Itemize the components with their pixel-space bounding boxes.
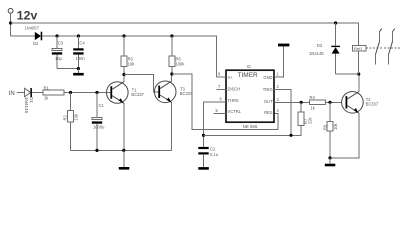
wire bottom ground rail (71, 149, 172, 151)
svg-text:100n: 100n (76, 56, 86, 61)
wire C3 to C4 bottom (57, 68, 78, 70)
node VCC junction (9, 21, 12, 24)
wire IN to D1 (17, 92, 25, 94)
wire T1 emitter (123, 103, 125, 150)
svg-text:D2: D2 (33, 41, 39, 46)
wire R6 node to 555 nets (172, 74, 278, 130)
node C4 ground junction (77, 67, 80, 70)
pin 2 TRIG (274, 90, 291, 136)
node C4 tap (77, 34, 80, 37)
svg-text:22k: 22k (308, 116, 313, 124)
relay contact 1 (376, 29, 382, 65)
node C1 tap (95, 91, 98, 94)
node ground junction (122, 149, 125, 152)
svg-text:THRS: THRS (228, 98, 239, 103)
svg-text:1N4148: 1N4148 (24, 97, 29, 114)
svg-text:TIMER: TIMER (238, 72, 259, 79)
wire trig rail (204, 126, 302, 136)
svg-text:BC337: BC337 (131, 92, 144, 97)
ground C2 (198, 167, 209, 170)
svg-text:10k: 10k (74, 113, 79, 121)
ground C3 C4 (73, 69, 84, 76)
relay contact 2 (389, 29, 395, 65)
pin 1 GND to ground (274, 46, 284, 77)
node R6 tap (170, 34, 173, 37)
node R5 bottom junction (328, 156, 331, 159)
capacitor C2 (198, 146, 218, 167)
wire T1 collector (123, 75, 125, 82)
svg-text:Rel1: Rel1 (354, 46, 363, 51)
node R3 tap (122, 34, 125, 37)
svg-text:R4: R4 (310, 95, 316, 100)
pin 5 VCTRL stub (214, 113, 227, 115)
IC 555 (226, 64, 274, 129)
transistor T3 (154, 81, 193, 103)
wire T2 collector (358, 74, 360, 92)
svg-text:1N4148: 1N4148 (309, 51, 324, 56)
wire supply rail to 555 V+ (42, 36, 216, 77)
wire R4 to T2 base (326, 101, 342, 103)
node D3 top (334, 21, 337, 24)
svg-text:IN: IN (9, 91, 15, 97)
wire R1 to T1 base (64, 92, 111, 94)
diode D2 (25, 26, 43, 46)
svg-text:BC337: BC337 (366, 102, 379, 107)
resistor R2 (63, 93, 79, 151)
wire top rail 12V to relay (11, 23, 359, 46)
wire T3 emitter (171, 103, 173, 151)
svg-text:BC337: BC337 (180, 91, 193, 96)
wire T3 collector (171, 74, 173, 81)
svg-text:D3: D3 (317, 43, 323, 48)
svg-text:10µ: 10µ (55, 56, 63, 61)
svg-text:GND: GND (263, 75, 272, 80)
svg-text:C1: C1 (99, 103, 105, 108)
svg-text:NE 555: NE 555 (243, 124, 258, 129)
transistor T2 (342, 92, 379, 114)
relay Rel1 coil (353, 46, 366, 74)
svg-text:10k: 10k (128, 62, 136, 67)
node R6 collector junction (170, 72, 173, 75)
diode D3 (309, 23, 340, 74)
resistor R3 (121, 36, 135, 75)
node R5 tap (328, 101, 331, 104)
node TRIG bottom (289, 134, 292, 137)
svg-text:DISCH: DISCH (228, 87, 241, 92)
svg-text:12v: 12v (17, 9, 38, 23)
pin 6 THRS (204, 102, 227, 148)
terminal 12V (8, 8, 13, 36)
svg-text:C3: C3 (58, 41, 64, 46)
capacitor C1 (92, 93, 105, 151)
svg-text:VCTRL: VCTRL (228, 109, 242, 114)
ground 555 (278, 44, 289, 47)
resistor R4 (310, 95, 326, 110)
svg-text:0,1u: 0,1u (210, 152, 218, 157)
resistor R6 (169, 36, 185, 74)
wire T2 emitter to R5 bottom (330, 113, 359, 158)
svg-text:OUT: OUT (264, 99, 273, 104)
wire lower supply rail left (11, 35, 35, 37)
wire D3 to relay node (336, 73, 359, 75)
node relay bottom junction (357, 72, 360, 75)
svg-text:R5: R5 (322, 124, 327, 130)
ground T2 (325, 158, 336, 166)
capacitor C4 (73, 36, 85, 69)
svg-text:R1: R1 (44, 85, 50, 90)
wire relay dashed link (366, 47, 400, 49)
ground main (119, 150, 130, 169)
svg-text:RES: RES (264, 110, 273, 115)
svg-text:C4: C4 (79, 41, 85, 46)
node C3 tap (55, 34, 58, 37)
svg-text:IC: IC (247, 64, 251, 69)
wire R3 node to T3 base (124, 75, 158, 92)
svg-text:100k: 100k (176, 62, 186, 67)
svg-text:C2: C2 (210, 146, 216, 151)
node R2 tap (69, 91, 72, 94)
resistor R1 (43, 85, 64, 100)
capacitor C3 (52, 36, 64, 69)
svg-text:1000u: 1000u (93, 124, 104, 129)
svg-text:R2: R2 (63, 115, 68, 121)
node C1 bottom (95, 149, 98, 152)
svg-text:10k: 10k (333, 122, 338, 130)
svg-text:V+: V+ (228, 75, 234, 80)
pin 7 DISCH stub (216, 89, 226, 91)
svg-text:TRIG: TRIG (263, 87, 273, 92)
node C2 junction (202, 134, 205, 137)
node R7 top (300, 101, 303, 104)
pin 3 OUT wire (274, 101, 310, 103)
transistor T1 (107, 82, 145, 104)
node T1 collector junction (122, 73, 125, 76)
resistor R7 (298, 102, 312, 125)
svg-text:1N4057: 1N4057 (25, 26, 40, 31)
resistor R5 (322, 102, 338, 158)
pin 8 V+ (216, 76, 226, 78)
diode D1 (24, 88, 43, 114)
